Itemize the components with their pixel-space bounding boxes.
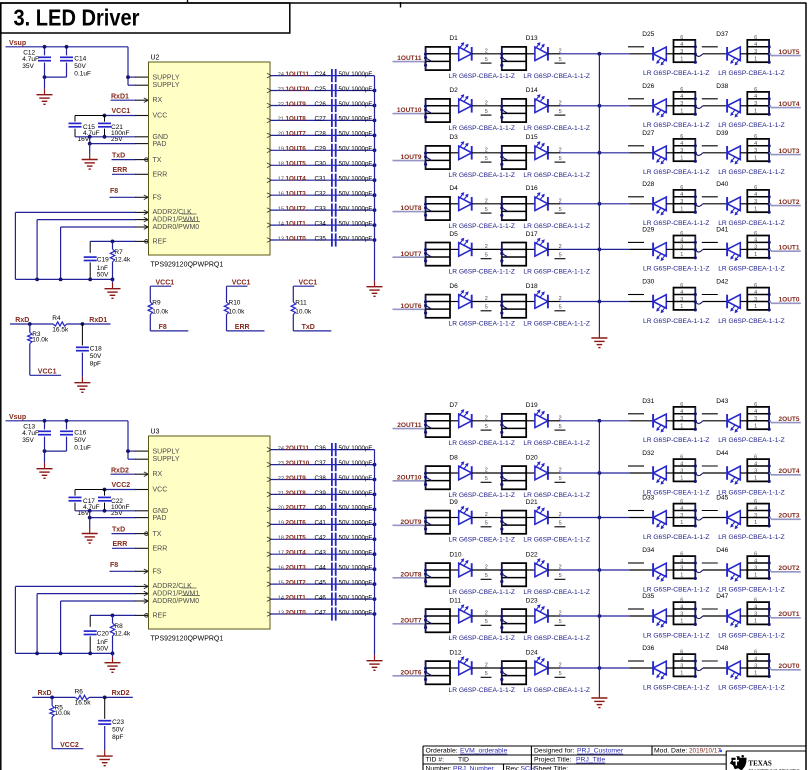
svg-text:D43: D43	[716, 398, 728, 405]
svg-text:R10: R10	[229, 299, 241, 306]
wire 1OUT5 pin 18 row	[267, 163, 375, 168]
svg-text:D5: D5	[449, 231, 458, 238]
net label 2OUT6	[393, 669, 426, 679]
svg-text:2OUT6: 2OUT6	[286, 520, 307, 527]
LED D23 LR G6SP-CBEA-1-1-Z	[526, 597, 560, 622]
svg-text:0.1uF: 0.1uF	[74, 71, 91, 78]
svg-text:6: 6	[680, 649, 683, 655]
resistor R9 10.0k	[148, 286, 169, 331]
net label 1OUT5	[769, 49, 801, 56]
pin labels 2/5 after D10	[481, 565, 492, 580]
svg-text:D36: D36	[642, 645, 654, 652]
ground	[105, 657, 121, 673]
svg-text:D46: D46	[716, 547, 728, 554]
svg-text:C23: C23	[112, 719, 124, 726]
net label 1OUT6	[393, 303, 426, 313]
capacitor C23 8pF 50V	[98, 697, 124, 750]
svg-text:18: 18	[278, 162, 284, 168]
svg-text:4: 4	[754, 192, 757, 198]
svg-text:LR G6SP-CBEA-1-1-Z: LR G6SP-CBEA-1-1-Z	[643, 122, 710, 129]
svg-text:D9: D9	[449, 499, 458, 506]
wire row to LED D14	[526, 105, 535, 107]
svg-text:LR G6SP-CBEA-1-1-Z: LR G6SP-CBEA-1-1-Z	[643, 632, 710, 639]
svg-text:LR G6SP-CBEA-1-1-Z: LR G6SP-CBEA-1-1-Z	[449, 440, 516, 447]
pin number 20	[278, 506, 284, 512]
svg-text:VCC1: VCC1	[112, 108, 131, 115]
net label 1OUT3	[769, 148, 801, 155]
svg-text:50V 1000pF: 50V 1000pF	[339, 116, 373, 123]
wire row to LED D4	[450, 203, 459, 205]
wire D30 package to LED D42	[695, 302, 727, 305]
net label 1OUT7	[286, 131, 307, 138]
svg-text:D7: D7	[449, 402, 458, 409]
capacitor C35 50V 1000pF	[315, 233, 373, 246]
LED D3 LR G6SP-CBEA-1-1-Z	[449, 134, 501, 159]
floating pin stub before D37	[702, 46, 718, 48]
svg-text:50V 1000pF: 50V 1000pF	[339, 146, 373, 153]
svg-text:5: 5	[559, 476, 562, 482]
svg-text:5: 5	[485, 424, 488, 430]
svg-text:20: 20	[278, 132, 284, 138]
connector package (row 1 mid)	[500, 414, 526, 437]
svg-text:Orderable:: Orderable:	[426, 748, 458, 755]
LED D37 LR G6SP-CBEA-1-1-Z	[716, 31, 747, 66]
svg-text:1: 1	[680, 252, 683, 258]
connector package (row 3, D39)	[747, 134, 770, 163]
wire D26 package to LED D38	[695, 106, 727, 109]
net label 2OUT7	[393, 617, 426, 627]
part value text row 5 left	[449, 635, 590, 642]
wire bus to LED D29	[599, 248, 653, 250]
LED D15 LR G6SP-CBEA-1-1-Z	[526, 134, 560, 159]
net label ERR	[112, 541, 149, 548]
svg-text:R7: R7	[114, 249, 123, 256]
svg-text:4: 4	[680, 506, 683, 512]
svg-text:D42: D42	[716, 279, 728, 286]
svg-text:REF: REF	[153, 613, 167, 620]
net label 2OUT5	[286, 535, 307, 542]
svg-text:10.0k: 10.0k	[295, 308, 312, 315]
LED D5 LR G6SP-CBEA-1-1-Z	[449, 231, 501, 256]
wire D20 to center bus	[560, 471, 601, 475]
svg-text:50V 1000pF: 50V 1000pF	[339, 205, 373, 212]
op-amp-style IC U2 TPS929120QPWPRQ1 body	[149, 55, 271, 269]
svg-text:8pF: 8pF	[90, 361, 101, 368]
wire row to LED D17	[526, 248, 535, 250]
svg-text:3: 3	[680, 297, 683, 303]
power net VCC1 (R11)	[293, 280, 317, 287]
wire row to LED D23	[526, 615, 535, 617]
connector package (row 4 mid)	[500, 563, 526, 586]
wire row to LED D10	[450, 569, 459, 571]
net label 2OUT11	[286, 445, 310, 452]
svg-text:5: 5	[485, 109, 488, 115]
wire cap bank ground bus	[374, 450, 376, 655]
part value text row 6 left	[449, 321, 590, 328]
svg-text:6: 6	[754, 551, 757, 557]
svg-text:0.1uF: 0.1uF	[74, 445, 91, 452]
LED D10 LR G6SP-CBEA-1-1-Z	[449, 551, 501, 576]
connector package (row 3, D45)	[747, 499, 770, 528]
svg-text:17: 17	[278, 551, 284, 557]
pin labels 2/5 after D19	[555, 415, 566, 430]
floating pin stub before D25	[628, 46, 644, 48]
wire bus to LED D34	[599, 569, 653, 571]
pin labels 2/5 after D5	[481, 244, 492, 259]
pin labels 2/5 after D7	[481, 415, 492, 430]
capacitor C34 50V 1000pF	[315, 219, 373, 232]
svg-text:SCH: SCH	[521, 766, 535, 770]
svg-text:VCC1: VCC1	[299, 280, 318, 287]
wire row to LED D15	[526, 152, 535, 154]
LED D46 LR G6SP-CBEA-1-1-Z	[716, 547, 747, 582]
capacitor C46 50V 1000pF	[315, 593, 373, 606]
net label 1OUT2	[769, 199, 801, 206]
connector package (row 3, D33)	[674, 499, 697, 528]
svg-text:5: 5	[559, 156, 562, 162]
svg-text:50V 1000pF: 50V 1000pF	[339, 71, 373, 78]
svg-text:10.0k: 10.0k	[55, 710, 72, 717]
resistor R6 16.5k	[75, 689, 133, 707]
pin number 14	[278, 221, 284, 227]
net label 1OUT4	[769, 101, 801, 108]
svg-text:1: 1	[754, 56, 757, 62]
connector package (row 2 left)	[424, 99, 450, 122]
capacitor C39 50V 1000pF	[315, 488, 373, 501]
svg-text:2: 2	[485, 512, 488, 518]
svg-text:4: 4	[754, 94, 757, 100]
LED D45 LR G6SP-CBEA-1-1-Z	[716, 495, 747, 530]
svg-text:1: 1	[754, 573, 757, 579]
svg-text:D21: D21	[526, 499, 538, 506]
svg-text:6: 6	[680, 499, 683, 505]
pin number 22	[278, 476, 284, 482]
svg-text:2OUT7: 2OUT7	[286, 505, 307, 512]
svg-text:RX: RX	[153, 97, 163, 104]
pin number 23	[278, 461, 284, 467]
connector package (row 1, D31)	[674, 402, 697, 431]
wire bus to LED D27	[599, 152, 653, 154]
svg-text:6: 6	[680, 597, 683, 603]
LED D13 LR G6SP-CBEA-1-1-Z	[526, 35, 560, 60]
svg-text:1OUT1: 1OUT1	[779, 245, 800, 252]
svg-text:6: 6	[754, 35, 757, 41]
connector package (row 5, D35)	[674, 597, 697, 626]
junction	[373, 463, 377, 467]
svg-text:PRJ_Title: PRJ_Title	[576, 757, 605, 764]
LED D16 LR G6SP-CBEA-1-1-Z	[526, 185, 560, 210]
svg-text:18: 18	[278, 536, 284, 542]
connector package (row 6, D36)	[674, 649, 697, 678]
svg-text:1: 1	[754, 671, 757, 677]
svg-text:4: 4	[754, 290, 757, 296]
floating pin stub before D40	[702, 196, 718, 198]
svg-text:2OUT4: 2OUT4	[286, 550, 307, 557]
svg-text:TX: TX	[153, 157, 162, 164]
wire D22 to center bus	[560, 568, 601, 572]
LED D26 LR G6SP-CBEA-1-1-Z	[642, 83, 673, 118]
connector package (row 5 mid)	[500, 243, 526, 266]
wire bus to LED D36	[599, 667, 653, 669]
svg-text:5: 5	[485, 57, 488, 63]
svg-text:1: 1	[754, 206, 757, 212]
connector package (row 1 left)	[424, 414, 450, 437]
svg-text:16.5k: 16.5k	[75, 700, 92, 707]
svg-text:1: 1	[754, 476, 757, 482]
svg-text:2OUT3: 2OUT3	[286, 565, 307, 572]
svg-text:TID: TID	[458, 757, 469, 764]
wire 2OUT4 pin 17 row	[267, 552, 375, 557]
wire Vsup to supply pins	[126, 421, 148, 459]
svg-text:50V: 50V	[74, 63, 86, 70]
svg-text:D37: D37	[716, 31, 728, 38]
connector package (row 6 mid)	[500, 661, 526, 684]
svg-text:F8: F8	[110, 562, 118, 569]
wire D35 package to LED D47	[695, 616, 727, 619]
svg-text:1OUT3: 1OUT3	[286, 191, 307, 198]
svg-text:22: 22	[278, 102, 284, 108]
power net VCC2	[103, 482, 149, 491]
wire bus to LED D31	[599, 420, 653, 422]
pin labels 2/5 after D1	[481, 48, 492, 63]
junction	[373, 148, 377, 152]
net label 2OUT2	[286, 579, 307, 586]
svg-text:6: 6	[680, 35, 683, 41]
svg-text:3: 3	[754, 513, 757, 519]
svg-text:6: 6	[754, 597, 757, 603]
svg-text:LR G6SP-CBEA-1-1-Z: LR G6SP-CBEA-1-1-Z	[643, 318, 710, 325]
wire D32 package to LED D44	[695, 473, 727, 476]
svg-text:1: 1	[680, 573, 683, 579]
pin labels 2/5 after D2	[481, 100, 492, 115]
svg-text:C20: C20	[97, 631, 109, 638]
net label RxD2	[111, 467, 149, 476]
power net VCC1	[30, 369, 61, 376]
junction	[373, 552, 377, 556]
svg-text:D45: D45	[716, 495, 728, 502]
wire 2OUT10 pin 23 row	[267, 462, 375, 467]
svg-text:4: 4	[680, 290, 683, 296]
capacitor C42 50V 1000pF	[315, 533, 373, 546]
connector package (row 5 mid)	[500, 609, 526, 632]
LED D7 LR G6SP-CBEA-1-1-Z	[449, 402, 501, 427]
svg-text:D11: D11	[449, 597, 461, 604]
net label F8	[150, 324, 188, 331]
ground	[97, 750, 113, 766]
power net VCC1 (R9)	[150, 280, 174, 287]
floating pin stub before D38	[702, 98, 718, 100]
part value text row 3 left	[449, 172, 590, 179]
capacitor C13 4.7uF 35V	[22, 419, 51, 451]
svg-text:VCC2: VCC2	[112, 482, 131, 489]
wire bus to LED D35	[599, 615, 653, 617]
svg-text:D23: D23	[526, 597, 538, 604]
svg-text:1OUT6: 1OUT6	[286, 146, 307, 153]
wire bus to LED D26	[599, 105, 653, 107]
capacitor C45 50V 1000pF	[315, 578, 373, 591]
wire LED bank center bus	[598, 54, 600, 332]
svg-text:24: 24	[278, 446, 284, 452]
floating pin stub before D34	[628, 562, 644, 564]
part value text row 5 right	[643, 266, 785, 273]
svg-text:C16: C16	[74, 429, 86, 436]
ground	[37, 463, 53, 479]
svg-text:3: 3	[680, 468, 683, 474]
capacitor C15 4.7uF 16V	[69, 116, 105, 144]
title block row 1	[426, 748, 722, 755]
svg-text:2: 2	[485, 611, 488, 617]
floating pin stub before D26	[628, 98, 644, 100]
svg-text:R9: R9	[152, 299, 161, 306]
svg-text:D34: D34	[642, 547, 654, 554]
svg-text:4: 4	[754, 461, 757, 467]
pin number 15	[278, 580, 284, 586]
svg-text:2: 2	[485, 48, 488, 54]
net label 2OUT3	[769, 513, 801, 520]
svg-text:C29: C29	[315, 146, 327, 153]
svg-text:1OUT2: 1OUT2	[286, 205, 307, 212]
svg-text:C45: C45	[315, 579, 327, 586]
junction	[373, 89, 377, 93]
svg-text:C39: C39	[315, 490, 327, 497]
svg-text:2: 2	[485, 198, 488, 204]
svg-text:1OUT9: 1OUT9	[286, 101, 307, 108]
connector package (row 6 left)	[424, 295, 450, 318]
connector package (row 1, D25)	[674, 35, 697, 64]
net label TxD	[293, 324, 331, 331]
part value text row 2 left	[449, 125, 590, 132]
pin number 24	[278, 72, 284, 78]
LED D38 LR G6SP-CBEA-1-1-Z	[716, 83, 747, 118]
floating pin stub before D39	[702, 145, 718, 147]
connector package (row 3, D27)	[674, 134, 697, 163]
svg-text:LR G6SP-CBEA-1-1-Z: LR G6SP-CBEA-1-1-Z	[449, 635, 516, 642]
svg-text:50V 1000pF: 50V 1000pF	[339, 131, 373, 138]
svg-text:SUPPLY: SUPPLY	[153, 74, 180, 81]
wire D25 package to LED D37	[695, 54, 727, 57]
svg-text:50V 1000pF: 50V 1000pF	[339, 550, 373, 557]
floating pin stub before D31	[628, 413, 644, 415]
connector package (row 4, D34)	[674, 551, 697, 580]
svg-text:FS: FS	[153, 569, 162, 576]
svg-text:24: 24	[278, 72, 284, 78]
svg-text:14: 14	[278, 595, 284, 601]
svg-text:D31: D31	[642, 398, 654, 405]
svg-text:LR G6SP-CBEA-1-1-Z: LR G6SP-CBEA-1-1-Z	[449, 223, 516, 230]
svg-text:D32: D32	[642, 450, 654, 457]
svg-text:1OUT1: 1OUT1	[286, 220, 307, 227]
resistor R3 10.0k	[28, 324, 49, 375]
svg-text:2OUT5: 2OUT5	[779, 416, 800, 423]
svg-text:50V 1000pF: 50V 1000pF	[339, 191, 373, 198]
LED D43 LR G6SP-CBEA-1-1-Z	[716, 398, 747, 433]
net label F8	[110, 188, 149, 199]
part value text row 4 left	[449, 223, 590, 230]
wire 2OUT6 pin 19 row	[267, 522, 375, 527]
svg-text:C26: C26	[315, 101, 327, 108]
svg-text:C43: C43	[315, 550, 327, 557]
pin labels 2/5 after D11	[481, 611, 492, 626]
ground	[37, 89, 53, 105]
svg-text:6: 6	[754, 649, 757, 655]
LED D2 LR G6SP-CBEA-1-1-Z	[449, 87, 501, 112]
LED D18 LR G6SP-CBEA-1-1-Z	[526, 283, 560, 308]
svg-text:1: 1	[680, 206, 683, 212]
wire 2OUT5 pin 18 row	[267, 537, 375, 542]
floating pin stub before D48	[702, 660, 718, 662]
LED D34 LR G6SP-CBEA-1-1-Z	[642, 547, 673, 582]
svg-text:D13: D13	[526, 35, 538, 42]
wire 1OUT9 pin 22 row	[267, 103, 375, 108]
svg-text:50V 1000pF: 50V 1000pF	[339, 475, 373, 482]
svg-text:2OUT9: 2OUT9	[286, 475, 307, 482]
svg-text:TPS929120QPWPRQ1: TPS929120QPWPRQ1	[151, 261, 224, 268]
svg-text:4: 4	[680, 604, 683, 610]
svg-text:ADDR1/PWM1: ADDR1/PWM1	[153, 217, 200, 224]
svg-text:5: 5	[559, 57, 562, 63]
svg-text:LR G6SP-CBEA-1-1-Z: LR G6SP-CBEA-1-1-Z	[523, 635, 590, 642]
wire to GND/PAD pins	[75, 135, 149, 154]
svg-text:1: 1	[754, 155, 757, 161]
LED D17 LR G6SP-CBEA-1-1-Z	[526, 231, 560, 256]
svg-text:VCC1: VCC1	[38, 369, 57, 376]
svg-text:D40: D40	[716, 181, 728, 188]
LED D22 LR G6SP-CBEA-1-1-Z	[526, 551, 560, 576]
capacitor C37 50V 1000pF	[315, 458, 373, 471]
svg-text:C32: C32	[315, 191, 327, 198]
wire 2OUT11 pin 24 row	[267, 447, 375, 452]
svg-text:23: 23	[278, 87, 284, 93]
svg-text:LR G6SP-CBEA-1-1-Z: LR G6SP-CBEA-1-1-Z	[718, 122, 785, 129]
svg-text:LR G6SP-CBEA-1-1-Z: LR G6SP-CBEA-1-1-Z	[523, 589, 590, 596]
wire D21 to center bus	[560, 516, 601, 520]
capacitor C38 50V 1000pF	[315, 473, 373, 486]
wire ADDR2/CLK	[15, 584, 148, 653]
pin number 17	[278, 177, 284, 183]
pin number 22	[278, 102, 284, 108]
svg-text:C41: C41	[315, 520, 327, 527]
svg-text:D17: D17	[526, 231, 538, 238]
svg-text:2: 2	[485, 663, 488, 669]
svg-text:50V: 50V	[112, 726, 124, 733]
svg-text:4: 4	[680, 42, 683, 48]
svg-text:4: 4	[680, 94, 683, 100]
LED D35 LR G6SP-CBEA-1-1-Z	[642, 593, 673, 628]
svg-text:1OUT5: 1OUT5	[286, 161, 307, 168]
net label TxD	[112, 153, 149, 162]
LED D21 LR G6SP-CBEA-1-1-Z	[526, 499, 560, 524]
svg-text:3: 3	[754, 148, 757, 154]
svg-text:5: 5	[559, 671, 562, 677]
floating pin stub before D45	[702, 510, 718, 512]
capacitor C12 4.7uF 35V	[22, 45, 51, 77]
net label 1OUT2	[286, 205, 307, 212]
wire 1OUT3 pin 16 row	[267, 193, 375, 198]
net label 1OUT8	[393, 205, 426, 215]
junction	[373, 134, 377, 138]
svg-text:4: 4	[680, 656, 683, 662]
svg-text:2OUT1: 2OUT1	[779, 611, 800, 618]
wire cap bank ground bus	[374, 76, 376, 281]
LED D6 LR G6SP-CBEA-1-1-Z	[449, 283, 501, 308]
wire row to LED D8	[450, 472, 459, 474]
svg-text:D33: D33	[642, 495, 654, 502]
pin number 24	[278, 446, 284, 452]
connector package (row 3 mid)	[500, 511, 526, 534]
svg-text:C36: C36	[315, 445, 327, 452]
wire D24 to center bus	[560, 666, 601, 670]
svg-text:4: 4	[680, 558, 683, 564]
